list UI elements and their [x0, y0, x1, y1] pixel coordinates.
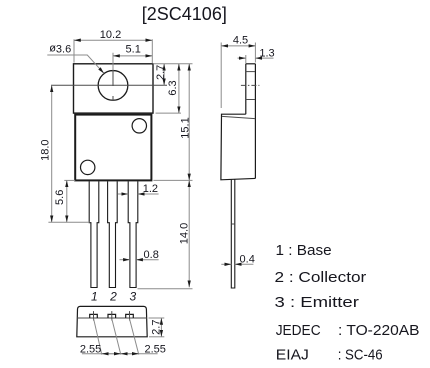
svg-text:5.1: 5.1 — [126, 43, 141, 55]
side lead step tick — [231, 223, 235, 225]
side body chamfer line — [222, 116, 255, 118]
dimension 6.3 — [156, 64, 182, 113]
svg-text:2 : Collector: 2 : Collector — [275, 269, 367, 286]
svg-text:10.2: 10.2 — [100, 29, 121, 41]
dimension 4.5 — [221, 35, 255, 109]
title [2SC4106] — [142, 4, 227, 24]
dimension 15.1 — [153, 64, 192, 181]
body circle top-right — [132, 119, 146, 133]
svg-text:: SC-46: : SC-46 — [338, 347, 383, 364]
side hole center dash-dot line — [241, 84, 260, 86]
svg-text:6.3: 6.3 — [167, 80, 179, 95]
lead number 1 — [91, 289, 98, 303]
hole center line — [51, 84, 167, 86]
side view lead — [231, 180, 235, 289]
svg-text:4.5: 4.5 — [233, 35, 248, 47]
dimension 5.6 — [54, 180, 75, 222]
front view body — [75, 115, 151, 181]
lead 1 — [89, 181, 99, 287]
lead 3 — [128, 181, 138, 287]
svg-text:1.2: 1.2 — [143, 183, 158, 195]
front view tab — [74, 64, 154, 113]
dimension 2.7 — [153, 64, 193, 86]
dimension 2.7 bottom view — [149, 318, 165, 337]
svg-text:5.6: 5.6 — [54, 190, 66, 205]
oblique extension line lead 1 — [94, 319, 102, 355]
svg-text:14.0: 14.0 — [178, 223, 190, 244]
svg-text:18.0: 18.0 — [40, 139, 52, 160]
bottom lead section 3 — [126, 311, 134, 320]
svg-text:0.4: 0.4 — [240, 253, 255, 265]
svg-text:2.55: 2.55 — [144, 343, 165, 355]
legend line 1 Base — [276, 242, 332, 259]
svg-text:2.55: 2.55 — [80, 343, 101, 355]
legend line 3 Emitter — [275, 294, 359, 311]
legend JEDEC — [276, 322, 420, 339]
svg-text:2.7: 2.7 — [150, 320, 162, 335]
dimension 10.2 — [74, 29, 152, 64]
side tab groove line upper — [246, 71, 255, 73]
mounting hole — [98, 71, 128, 101]
bottom view face line — [77, 317, 147, 319]
dimension 0.4 — [221, 253, 255, 265]
svg-text:1.3: 1.3 — [259, 47, 274, 59]
side view tab — [246, 64, 256, 179]
svg-text:0.8: 0.8 — [144, 249, 159, 261]
dimension 1.3 — [238, 47, 275, 63]
lead number 2 — [109, 289, 117, 303]
dimension 1.2 — [118, 183, 159, 195]
dimension 2.55 right — [121, 343, 166, 355]
svg-text:2.7: 2.7 — [155, 65, 167, 80]
svg-text:1 : Base: 1 : Base — [276, 242, 332, 259]
side view body — [221, 114, 256, 180]
svg-text:3: 3 — [129, 289, 136, 303]
legend line 2 Collector — [275, 269, 367, 286]
dimension 18.0 — [40, 85, 90, 222]
svg-text:15.1: 15.1 — [180, 117, 192, 138]
label diameter 3.6 with leader — [47, 43, 104, 74]
side tab groove line lower — [246, 99, 255, 101]
svg-text:3 : Emitter: 3 : Emitter — [275, 294, 359, 311]
dimension 14.0 — [138, 180, 193, 288]
oblique extension line lead 2 — [112, 319, 121, 355]
svg-text:: TO-220AB: : TO-220AB — [338, 322, 420, 339]
svg-text:JEDEC: JEDEC — [276, 322, 321, 339]
svg-text:1: 1 — [91, 289, 98, 303]
lead number 3 — [129, 289, 136, 303]
svg-text:2: 2 — [109, 289, 117, 303]
svg-text:[2SC4106]: [2SC4106] — [142, 4, 227, 24]
lead 2 — [108, 181, 118, 287]
hole center tick — [112, 71, 114, 101]
oblique extension line lead 3 — [130, 319, 139, 355]
legend EIAJ — [276, 347, 383, 364]
dimension 5.1 — [113, 43, 152, 70]
dimension 2.55 left — [80, 343, 158, 355]
body circle bottom-left — [81, 160, 95, 174]
bottom lead section 2 — [108, 311, 116, 320]
dimension 0.8 — [120, 249, 159, 261]
bottom lead section 1 — [90, 311, 98, 320]
svg-text:ø3.6: ø3.6 — [49, 43, 71, 56]
svg-text:EIAJ: EIAJ — [276, 347, 309, 364]
bottom view outline — [77, 306, 147, 336]
